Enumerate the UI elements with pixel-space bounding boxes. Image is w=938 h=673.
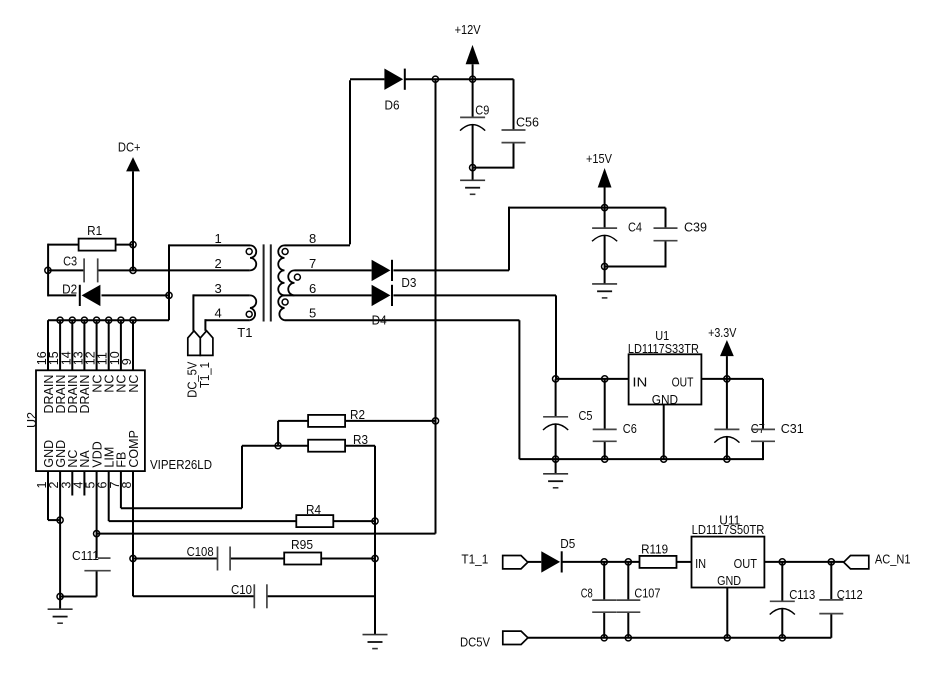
svg-text:1: 1 [215,231,222,246]
svg-text:GND: GND [652,392,678,407]
svg-text:C112: C112 [837,587,863,602]
wire: transformer pin3 lead to DC_5V port [193,294,250,330]
wire: C112 leads [830,562,832,638]
power symbol +12V [455,22,481,64]
wire: U2 pin1/pin2 ground stubs [48,471,60,596]
capacitor C7 (polarized) [714,421,765,443]
wire: T1_1 port to D5 [528,561,542,563]
svg-text:R3: R3 [353,432,368,447]
svg-text:C108: C108 [187,544,214,559]
svg-text:C7: C7 [751,421,765,436]
capacitor C6 [593,421,637,441]
svg-text:T1: T1 [237,325,252,340]
node: drain bus junctions [57,317,136,323]
svg-text:R1: R1 [87,223,102,238]
svg-text:4: 4 [215,306,222,321]
svg-text:C6: C6 [623,421,637,436]
capacitor C108 [187,544,231,571]
capacitor C3 [63,253,98,282]
wire: U1 rail ground stub [555,459,557,474]
svg-text:C111: C111 [72,548,99,563]
capacitor C31 [751,421,804,441]
wire: vertical pin1-line to drain bus [169,244,250,320]
capacitor C5 (polarized) [543,408,593,430]
svg-text:NC: NC [127,375,141,393]
svg-text:C9: C9 [475,102,489,117]
node: primary snubber junctions [45,242,172,299]
svg-text:R95: R95 [291,537,313,552]
svg-text:6: 6 [309,281,316,296]
wire: VDD line to +12V vertical [97,533,436,535]
capacitor C9 (polarized) [460,102,489,130]
port AC_N1 [844,552,911,569]
capacitor C112 [819,587,862,614]
svg-text:C56: C56 [516,114,539,129]
svg-text:T1_1: T1_1 [461,552,488,567]
ground (U1 rail) [543,474,568,488]
svg-text:3: 3 [215,281,222,296]
wire: U1 input rail [556,378,629,380]
svg-text:+12V: +12V [455,22,481,37]
wire: C39 branch [605,208,666,268]
svg-text:C4: C4 [628,219,642,234]
svg-text:5: 5 [309,306,316,321]
wire: U1 ground rail [519,458,763,460]
port DC_5V [186,331,201,398]
wire: R2 leads [278,421,435,446]
wire: U11 GND pin stub [726,588,728,638]
diode D5 [541,536,575,573]
ground (compensation network) [363,635,388,649]
svg-text:OUT: OUT [672,374,694,389]
svg-text:+3.3V: +3.3V [708,325,737,340]
transformer T1 [215,231,317,340]
wire: C4 leads [604,208,606,267]
svg-text:2: 2 [215,256,222,271]
wire: D4 output to U1 input rail [393,295,556,379]
wire: C10 line [133,595,375,597]
node: feedback divider junctions [275,418,439,562]
svg-text:C113: C113 [789,587,815,602]
wire: secondary pin8 to D6 [285,79,385,245]
svg-text:LD1117S33TR: LD1117S33TR [628,341,699,356]
ground (U2 pins) [48,609,73,623]
wire: U2 pin3 pin4 stubs (NC) [72,471,84,495]
svg-text:T1_1: T1_1 [198,362,212,388]
wire: C108 series R95 line [133,558,375,560]
svg-text:+15V: +15V [586,151,612,166]
svg-text:U2: U2 [24,412,39,428]
capacitor C107 [616,585,660,612]
svg-text:D2: D2 [62,281,77,296]
svg-text:D3: D3 [401,275,416,290]
svg-text:C107: C107 [634,585,660,600]
wire: +3.3V stem [726,356,728,379]
wire: transformer pin7 to D3 anode [295,269,372,271]
svg-text:LD1117S50TR: LD1117S50TR [692,522,765,537]
capacitor C8 [581,585,617,612]
op-amp U1 (regulator LD1117S33TR) [628,328,701,407]
wire: transformer pin6 to D4 anode [282,294,372,296]
power symbol DC+ [118,140,141,172]
svg-text:C39: C39 [684,219,707,234]
wire: C7 leads [726,379,728,459]
wire: DC5V rail [528,637,831,639]
wire: U2 pin8 COMP vertical [132,471,134,596]
node: U2 ground/VDD junctions [57,517,136,600]
wire: D5 to R119 to U11 IN [563,561,692,563]
wire: R3 leads and ground vertical [278,446,375,635]
wire: C4/C39 ground stub [604,267,606,284]
wire: long +12V feedback vertical [435,79,437,533]
wire: U2 pin6 LIM stub and R4 line [109,471,375,521]
svg-text:VIPER26LD: VIPER26LD [150,457,212,472]
svg-text:DC+: DC+ [118,140,141,155]
wire: U11 OUT to AC_N1 [764,561,843,563]
capacitor C111 [72,548,111,571]
diode D2 [62,281,100,306]
svg-text:R4: R4 [306,502,321,517]
capacitor C39 [654,219,708,240]
node: +15V junctions [602,205,608,270]
wire: C9/C56 ground stub [472,168,474,181]
power symbol +15V [586,151,612,187]
svg-text:9: 9 [120,358,134,365]
wire: R1 left lead and left vertical to C3/D2 [48,244,133,297]
svg-text:C8: C8 [581,585,593,600]
svg-text:OUT: OUT [734,556,757,571]
resistor R1 [79,223,116,251]
power symbol +3.3V [708,325,737,356]
wire: +12V stem [472,64,474,79]
diode D4 [372,285,393,328]
capacitor C10 [231,582,267,608]
wire: D2 anode/cathode leads [48,294,169,296]
svg-text:C10: C10 [231,582,252,597]
capacitor C4 (polarized) [592,219,642,241]
resistor R2 [308,407,365,427]
wire: U1 GND pin stub [663,405,665,460]
svg-text:DC5V: DC5V [460,635,490,650]
wire: transformer pin4 lead to T1_1 port [205,319,250,331]
wire: DC+ net vertical into R1/C3 node [132,171,134,270]
wire: D6 cathode to +12V node [405,78,513,80]
svg-text:7: 7 [309,256,316,271]
ground (C4/C39) [592,284,617,298]
op-amp U11 (regulator LD1117S50TR) [692,513,765,589]
svg-text:R2: R2 [350,407,365,422]
svg-text:IN: IN [695,556,706,571]
wire: +15V stem [604,188,606,208]
svg-text:GND: GND [717,573,741,588]
node: U11 rail junctions [601,559,834,641]
wire: U2 drain bus and top pin stubs [48,320,169,370]
wire: C9 leads [472,79,474,167]
diode D3 [372,260,417,290]
ground (C9/C56) [460,180,485,194]
resistor R119 [640,542,677,568]
svg-text:C3: C3 [63,253,77,268]
svg-text:D4: D4 [372,313,387,328]
port DC5V [460,631,528,650]
svg-text:C31: C31 [781,421,804,436]
port T1_1 (at transformer) [198,331,213,388]
svg-text:IN: IN [632,374,647,389]
port T1_1 [461,552,527,569]
svg-text:COMP: COMP [127,430,141,468]
svg-text:C5: C5 [579,408,593,423]
node: +12V rectifier junctions [432,76,475,171]
resistor R95 [284,537,321,565]
wire: C5 leads [555,379,557,459]
svg-text:AC_N1: AC_N1 [875,552,911,567]
node: U1 rail junctions [553,376,731,462]
resistor R4 [296,502,333,527]
transistor-controller U2 (VIPER26LD) [24,351,212,488]
wire: C113 leads [781,562,783,638]
svg-text:8: 8 [120,482,134,489]
wire: transformer pin5 to U1 ground rail [285,320,520,459]
wire: C107 leads [627,562,629,638]
wire: U2 pin5 VDD stub and C111 leads [60,471,97,596]
wire: C56 branch [473,79,514,168]
wire: D3 output to +15V rail [393,207,665,271]
wire: C3 line (transformer pin2 net) [48,269,250,271]
wire: C8 leads [603,562,605,638]
diode D6 [384,69,405,113]
wire: pin2 ground stub [59,597,61,610]
svg-text:R119: R119 [641,542,668,557]
svg-text:D6: D6 [385,97,400,112]
wire: U2 pin7 FB stub and route to divider [121,446,278,509]
svg-text:D5: D5 [560,536,575,551]
wire: U1 output to C31 branch [701,379,763,460]
capacitor C113 (polarized) [770,587,816,615]
wire: C6 leads [604,379,606,459]
capacitor C56 [502,114,540,142]
svg-text:8: 8 [309,231,316,246]
resistor R3 [308,432,368,452]
